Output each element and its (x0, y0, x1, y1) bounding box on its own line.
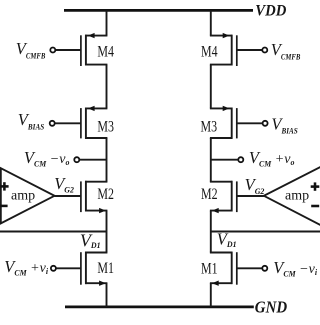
terminal VCMFB left (50, 48, 55, 53)
svg-text:GND: GND (255, 298, 287, 317)
svg-text:M1: M1 (201, 261, 218, 278)
svg-text:amp: amp (11, 188, 35, 203)
wire right M4 to M3 (210, 65, 212, 109)
svg-text:M4: M4 (201, 43, 218, 60)
svg-text:M2: M2 (201, 186, 218, 203)
transistor M2 right (210, 181, 264, 214)
transistor M4 left (55, 33, 107, 66)
wire left M3 to M2 (106, 138, 108, 182)
transistor M1 left (56, 252, 107, 286)
node Vcm-vo left output (74, 157, 79, 162)
terminal VBIAS right (263, 121, 268, 126)
wire feedback left (0, 231, 107, 233)
svg-text:M3: M3 (201, 119, 218, 136)
transistor M3 right (210, 106, 263, 139)
terminal Vcm+vi left (51, 266, 56, 271)
svg-text:VCM −vo: VCM −vo (24, 148, 70, 168)
svg-text:M3: M3 (97, 119, 114, 136)
transistor M3 left (55, 106, 108, 139)
terminal Vcm-vi right (262, 266, 267, 271)
transistor M4 right (210, 33, 262, 66)
wire right M3 to M2 (210, 138, 212, 182)
svg-text:M4: M4 (97, 43, 114, 60)
VDD rail (64, 9, 253, 12)
wire left M2 to M1 (106, 211, 108, 253)
wire output left (79, 159, 106, 161)
svg-text:VCM +vo: VCM +vo (249, 148, 295, 168)
wire right M1 to GND (210, 283, 212, 307)
wire right rail VDD to M4 (210, 10, 212, 35)
transistor M1 right (210, 252, 262, 286)
terminal VBIAS left (50, 121, 55, 126)
svg-text:VCM +vi: VCM +vi (4, 257, 49, 277)
GND rail (65, 306, 254, 309)
svg-text:VCM −vi: VCM −vi (273, 258, 318, 278)
wire output right (211, 159, 238, 161)
op-amp left (0, 168, 55, 223)
svg-text:M2: M2 (97, 186, 114, 203)
node Vcm+vo right output (238, 157, 243, 162)
wire right M2 to M1 (210, 211, 212, 253)
transistor M2 left (55, 181, 108, 214)
terminal VCMFB right (262, 48, 267, 53)
wire left rail VDD to M4 (106, 10, 108, 35)
svg-text:VDD: VDD (255, 3, 286, 20)
wire left M1 to GND (106, 283, 108, 307)
svg-text:M1: M1 (97, 260, 114, 277)
wire feedback right (211, 231, 320, 233)
svg-text:amp: amp (285, 188, 309, 203)
op-amp right (264, 166, 320, 225)
wire left M4 to M3 (106, 65, 108, 109)
